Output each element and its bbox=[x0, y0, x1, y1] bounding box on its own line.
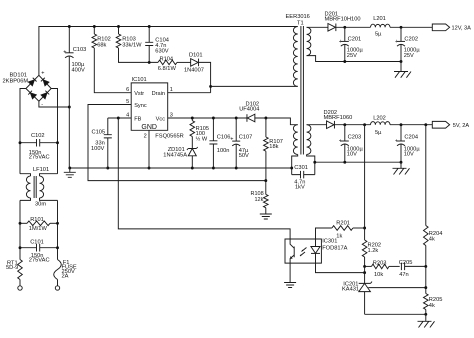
svg-text:630V: 630V bbox=[155, 48, 168, 54]
svg-text:KA431: KA431 bbox=[342, 287, 359, 293]
svg-text:Vcc: Vcc bbox=[156, 116, 166, 122]
svg-text:IC301: IC301 bbox=[322, 238, 337, 244]
svg-text:C203: C203 bbox=[348, 134, 362, 140]
transformer 12V secondary winding bbox=[307, 27, 311, 55]
svg-text:+: + bbox=[63, 49, 66, 55]
diode D101 bbox=[177, 61, 191, 63]
svg-text:6.8/1W: 6.8/1W bbox=[158, 66, 177, 72]
wire: D101 to drain node bbox=[199, 62, 211, 92]
resistor R104 bbox=[158, 60, 177, 65]
svg-text:47n: 47n bbox=[399, 272, 409, 278]
wire: opto emitter to primary ground bbox=[289, 263, 291, 282]
ground (sync divider, earth) bbox=[260, 214, 272, 219]
svg-text:10k: 10k bbox=[374, 272, 383, 278]
wire: Sync pin 5 run bbox=[88, 105, 266, 181]
IC U IC101 FSQ0565R bbox=[131, 83, 168, 130]
svg-text:MBRF1060: MBRF1060 bbox=[324, 115, 353, 121]
thermistor RT1 bbox=[18, 260, 23, 280]
node: sync divider junction bbox=[264, 179, 267, 182]
resistor R205 bbox=[424, 294, 429, 310]
node: junction bridge- / C103 bbox=[68, 106, 71, 109]
svg-text:C102: C102 bbox=[31, 133, 45, 139]
svg-text:1k: 1k bbox=[336, 233, 342, 239]
capacitor C205 bbox=[401, 263, 404, 271]
svg-text:T1: T1 bbox=[297, 20, 304, 26]
wire: top HV bus from bridge + to transformer primary top bbox=[39, 27, 298, 76]
svg-text:C201: C201 bbox=[348, 37, 362, 43]
svg-text:5D-9: 5D-9 bbox=[6, 265, 18, 271]
AC input terminal L bbox=[18, 286, 22, 290]
svg-text:33k/1W: 33k/1W bbox=[122, 42, 142, 48]
svg-text:+: + bbox=[339, 39, 342, 45]
resistor R103 bbox=[118, 27, 120, 35]
wire: R103 to snubber node bbox=[119, 48, 159, 62]
svg-text:½ W: ½ W bbox=[196, 136, 208, 143]
svg-text:FOD817A: FOD817A bbox=[322, 246, 347, 252]
resistor R203 bbox=[365, 265, 372, 267]
capacitor C103 (bulk electrolytic) bbox=[68, 27, 70, 53]
wire: FB pin 4 bbox=[108, 117, 131, 119]
svg-text:12k: 12k bbox=[255, 197, 264, 203]
resistor R201 bbox=[332, 226, 353, 231]
resistor R102 bbox=[93, 27, 95, 35]
shunt regulator IC201 KA431 bbox=[359, 282, 426, 315]
svg-text:50V: 50V bbox=[239, 153, 249, 159]
connector 12V output bbox=[432, 24, 449, 31]
capacitor C104 (snubber) bbox=[148, 27, 150, 43]
svg-text:R203: R203 bbox=[373, 260, 387, 266]
capacitor C201 bbox=[344, 27, 346, 41]
svg-text:UF4004: UF4004 bbox=[239, 107, 259, 113]
svg-text:+: + bbox=[339, 138, 342, 144]
svg-text:C105: C105 bbox=[92, 129, 106, 135]
svg-text:C106: C106 bbox=[217, 135, 231, 141]
svg-text:Drain: Drain bbox=[152, 91, 165, 97]
wire: 5V return rail ground stem bbox=[400, 162, 402, 168]
wire: R102 to IC101 Vstr pin 6 bbox=[94, 48, 131, 93]
wire: bridge - output to C103 bottom node bbox=[39, 101, 69, 107]
svg-text:5V, 2A: 5V, 2A bbox=[453, 123, 470, 129]
transformer auxiliary winding bbox=[293, 125, 297, 155]
wire: Vcc pin 3 bus bbox=[168, 117, 248, 119]
svg-text:1N4007: 1N4007 bbox=[184, 67, 204, 73]
diode D201 bbox=[307, 26, 328, 28]
wire: IC101 GND pin 2 to primary ground rail bbox=[148, 130, 150, 168]
resistor R107 bbox=[265, 118, 267, 137]
wire: left AC rail bbox=[20, 89, 26, 174]
svg-text:2: 2 bbox=[144, 134, 147, 140]
svg-text:L202: L202 bbox=[373, 115, 386, 121]
svg-text:D101: D101 bbox=[189, 52, 203, 58]
svg-text:10V: 10V bbox=[347, 152, 357, 158]
capacitor C105 bbox=[107, 118, 109, 135]
wire: divider node bbox=[425, 266, 427, 293]
svg-text:+: + bbox=[395, 138, 398, 144]
svg-text:68k: 68k bbox=[97, 42, 106, 48]
svg-text:+: + bbox=[41, 71, 44, 77]
svg-text:10V: 10V bbox=[404, 152, 414, 158]
wire: 12V rail bbox=[336, 26, 433, 28]
svg-text:R201: R201 bbox=[336, 220, 350, 226]
svg-text:18k: 18k bbox=[269, 144, 278, 150]
transformer 5V secondary winding bbox=[307, 125, 311, 155]
wire: right AC rail bbox=[51, 89, 57, 174]
svg-text:C107: C107 bbox=[239, 135, 253, 141]
svg-text:FSQ0565R: FSQ0565R bbox=[155, 133, 183, 139]
wire: KA431 anode run bbox=[365, 313, 426, 315]
svg-text:4k: 4k bbox=[429, 303, 435, 309]
wire: FB feedback line to optocoupler collector bbox=[118, 118, 290, 239]
zener ZD101 bbox=[191, 137, 193, 149]
svg-text:C301: C301 bbox=[294, 165, 308, 171]
wire: 5V sense line down to feedback network bbox=[364, 125, 366, 228]
transformer primary winding bbox=[293, 27, 297, 87]
svg-text:12V, 3A: 12V, 3A bbox=[452, 26, 472, 32]
capacitor C102 (X-cap) bbox=[20, 142, 58, 144]
svg-text:1.2k: 1.2k bbox=[368, 248, 379, 254]
fuse F1 bbox=[54, 260, 62, 280]
svg-text:4k: 4k bbox=[429, 237, 435, 243]
ground (12V return, chassis) bbox=[394, 72, 411, 78]
capacitor C204 bbox=[400, 125, 402, 141]
AC input terminal N bbox=[55, 286, 59, 290]
svg-text:C204: C204 bbox=[404, 134, 418, 140]
ground (primary, earth) bbox=[69, 168, 71, 172]
connector 5V output bbox=[432, 121, 449, 128]
wire: 12V winding bottom lead bbox=[307, 56, 401, 62]
svg-text:GND: GND bbox=[141, 124, 157, 131]
svg-text:5µ: 5µ bbox=[375, 32, 382, 38]
wire: 12V return / ground stem bbox=[400, 62, 402, 72]
svg-text:Sync: Sync bbox=[134, 103, 147, 109]
capacitor C202 bbox=[400, 27, 402, 41]
svg-text:MBRF10H100: MBRF10H100 bbox=[325, 17, 361, 23]
resistor R108 bbox=[264, 194, 269, 207]
ground (regulator, chassis) bbox=[418, 321, 435, 327]
wire: aux winding bottom lead to C301 left bbox=[292, 155, 298, 175]
svg-text:EER3016: EER3016 bbox=[286, 14, 310, 20]
svg-text:2A: 2A bbox=[62, 274, 69, 280]
resistor R101 bbox=[20, 222, 27, 224]
svg-text:1N4745A: 1N4745A bbox=[163, 152, 187, 158]
svg-text:275VAC: 275VAC bbox=[29, 155, 50, 161]
optocoupler IC301 FOD817A bbox=[285, 239, 321, 263]
capacitor C301 (Y-cap) bbox=[292, 174, 315, 176]
wire: 5V rail bbox=[334, 124, 432, 126]
svg-text:5µ: 5µ bbox=[375, 130, 382, 136]
svg-text:1kV: 1kV bbox=[295, 185, 305, 191]
ground (5V return, chassis) bbox=[393, 168, 410, 174]
resistor R204 bbox=[425, 125, 427, 226]
svg-text:30m: 30m bbox=[35, 202, 46, 208]
wire: drain pin 1 to transformer primary bottom bbox=[168, 92, 211, 94]
svg-text:275VAC: 275VAC bbox=[29, 258, 50, 264]
svg-text:Vstr: Vstr bbox=[134, 91, 144, 97]
svg-text:FB: FB bbox=[134, 116, 141, 122]
wire: opto LED anode from R201 bbox=[316, 228, 332, 239]
svg-text:R104: R104 bbox=[160, 56, 174, 62]
inductor L202 bbox=[371, 122, 391, 125]
svg-text:R101: R101 bbox=[30, 217, 44, 223]
svg-text:IC101: IC101 bbox=[132, 77, 147, 83]
svg-text:100V: 100V bbox=[91, 146, 104, 152]
svg-text:C205: C205 bbox=[399, 260, 413, 266]
svg-text:25V: 25V bbox=[404, 53, 414, 59]
svg-text:C103: C103 bbox=[73, 47, 87, 53]
ground (opto emitter, earth) bbox=[284, 283, 296, 288]
inductor L201 bbox=[371, 24, 391, 27]
wire: 5V winding bottom lead to C301 right bbox=[307, 155, 315, 175]
wire: primary ground rail bbox=[70, 167, 292, 169]
diode D202 bbox=[307, 124, 327, 126]
svg-text:25V: 25V bbox=[347, 53, 357, 59]
svg-text:400V: 400V bbox=[72, 67, 85, 73]
svg-text:2KBP06M: 2KBP06M bbox=[3, 78, 29, 84]
capacitor C106 bbox=[212, 118, 214, 141]
bridge rectifier BD101 bbox=[26, 71, 51, 108]
transformer T1 EER3016 core bbox=[301, 26, 304, 155]
svg-text:L201: L201 bbox=[373, 16, 386, 22]
diode D102 bbox=[247, 114, 255, 122]
wire: opto LED cathode to KA431 cathode node bbox=[316, 263, 365, 273]
svg-text:6: 6 bbox=[126, 87, 129, 93]
resistor R202 bbox=[364, 228, 366, 240]
svg-text:1M/1W: 1M/1W bbox=[29, 226, 48, 232]
svg-text:LF101: LF101 bbox=[33, 167, 49, 173]
wire: C301 right node to secondary ground rail bbox=[315, 161, 401, 163]
svg-text:+: + bbox=[395, 39, 398, 45]
resistor R105 bbox=[191, 118, 193, 121]
svg-text:+: + bbox=[230, 137, 233, 143]
svg-text:C101: C101 bbox=[30, 239, 44, 245]
svg-text:C202: C202 bbox=[404, 37, 418, 43]
svg-text:100n: 100n bbox=[217, 148, 230, 154]
capacitor C203 bbox=[344, 125, 346, 141]
capacitor C107 bbox=[235, 118, 237, 141]
capacitor C101 (X-cap) bbox=[20, 247, 58, 249]
